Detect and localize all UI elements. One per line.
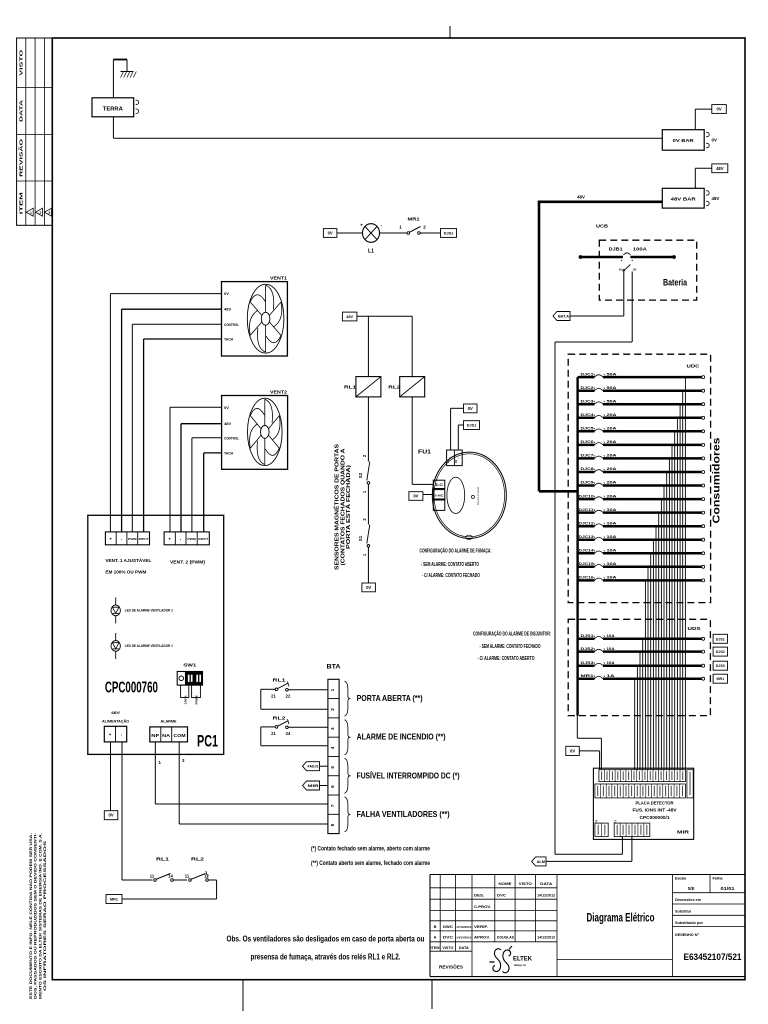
breaker DJS3 [578, 660, 705, 667]
svg-text:2: 2 [423, 225, 426, 230]
svg-text:ITEM: ITEM [19, 191, 24, 214]
svg-text:DJS3: DJS3 [716, 664, 725, 668]
terminal block MIR bottom right [613, 820, 650, 836]
wire PC1 minus down [121, 742, 123, 880]
breaker DJC15 [578, 561, 705, 568]
net tag 0V FU1 [464, 404, 478, 413]
wire VENT1 48V to PC1 [122, 309, 222, 532]
net tag DJS1 FU1 [464, 421, 480, 430]
svg-text:VERIF.: VERIF. [474, 924, 488, 929]
svg-text:100%: 100% [183, 695, 187, 705]
label PLACA DETECTOR [633, 800, 678, 820]
svg-text:0V: 0V [712, 138, 717, 143]
wire VENT2 48V to PC1 [181, 424, 222, 532]
svg-text:DJC12: DJC12 [579, 520, 595, 525]
revision triangle 2 [36, 208, 43, 216]
svg-text:FALHA VENTILADORES (**): FALHA VENTILADORES (**) [357, 810, 450, 819]
svg-text:presensa de fumaça, através do: presensa de fumaça, através dos relés RL… [251, 953, 401, 962]
svg-text:20A: 20A [607, 412, 617, 417]
wire VENT1 CONTROL to PC1 [132, 324, 221, 532]
busbar UDC 48V [576, 377, 578, 715]
breaker DJC1 [578, 371, 705, 378]
svg-text:LED DE ALARME VENTILADOR 2: LED DE ALARME VENTILADOR 2 [125, 609, 173, 613]
breaker DJC14 [578, 548, 705, 555]
wire DJC9 output [663, 486, 665, 771]
svg-text:0V BAR: 0V BAR [673, 138, 695, 144]
svg-text:DJC15: DJC15 [579, 561, 595, 566]
svg-text:DJC10: DJC10 [579, 493, 595, 498]
svg-text:20A: 20A [607, 439, 617, 444]
revision strip table [17, 38, 53, 225]
relay coil RL2 [388, 377, 424, 397]
svg-text:0V: 0V [108, 813, 113, 818]
svg-text:DATA: DATA [540, 881, 552, 886]
wire DJC4 output [676, 418, 678, 770]
svg-text:RL2: RL2 [191, 857, 204, 863]
wire DJC5 output [674, 431, 676, 770]
svg-text:ALARME DE INCENDIO (**): ALARME DE INCENDIO (**) [357, 733, 446, 742]
wire 0V tag to lamp [337, 232, 363, 234]
wire DJC1 output [684, 377, 686, 770]
wire battery negative to MIR [555, 272, 632, 855]
svg-text:DATA: DATA [459, 946, 470, 950]
svg-text:1: 1 [399, 225, 402, 230]
svg-text:17/10/2012: 17/10/2012 [456, 925, 471, 929]
svg-text:RL2: RL2 [273, 716, 287, 721]
wire 0V BAR to 0V tag [695, 109, 712, 130]
svg-text:FADJ1: FADJ1 [308, 765, 319, 769]
svg-text:+: + [168, 537, 171, 542]
net tag MR1 [713, 674, 727, 683]
wire VENT2 0V to PC1 [170, 407, 222, 532]
svg-text:DJC4: DJC4 [581, 412, 595, 417]
breaker DJC2 [578, 385, 705, 392]
svg-text:SENSORES MAGNÉTICOS DE PORTAS: SENSORES MAGNÉTICOS DE PORTAS [333, 444, 341, 570]
svg-text:ALM: ALM [537, 860, 545, 864]
breaker DJC9 [578, 480, 705, 487]
wire DJC15 output [647, 567, 649, 770]
svg-text:DVC: DVC [497, 894, 506, 898]
wire FU1 K1 to 0V tag [451, 408, 464, 450]
net tag 0V lamp [323, 229, 337, 238]
note Obs ventiladores [227, 935, 425, 962]
svg-text:NF: NF [151, 733, 160, 738]
net tag MR1 bottom left [106, 895, 122, 904]
wire TERRA to 0V BAR [113, 117, 662, 138]
svg-text:Dimensões em: Dimensões em [675, 898, 702, 902]
svg-text:48V: 48V [346, 315, 353, 319]
svg-text:20A: 20A [607, 426, 617, 431]
relay contact RL2 bottom [185, 857, 210, 882]
controller PC1 box [88, 515, 224, 754]
svg-text:FU1: FU1 [418, 450, 431, 456]
svg-text:Obs. Os ventiladores são desli: Obs. Os ventiladores são desligados em c… [227, 935, 425, 944]
svg-text:TERRA: TERRA [103, 106, 123, 112]
sheet ref tag to BTA 6 [303, 781, 328, 790]
net tag DJS1 lamp [441, 229, 457, 238]
terminal strip BTA [327, 664, 342, 834]
svg-text:10A: 10A [607, 575, 617, 580]
svg-text:48V: 48V [577, 195, 585, 200]
terminal 48V ALIMENTACAO on PC1 [102, 711, 129, 742]
svg-text:- C/ ALARME: CONTATO FECHADO: - C/ ALARME: CONTATO FECHADO [422, 573, 480, 579]
wire MR1 output [634, 679, 636, 770]
svg-text:DJC6: DJC6 [581, 439, 595, 444]
svg-text:2: 2 [39, 211, 41, 215]
sheet ref tag ALM [532, 857, 546, 866]
svg-text:0V: 0V [413, 494, 418, 499]
copyright note rotated left margin [29, 833, 47, 999]
svg-text:APROV.: APROV. [474, 935, 490, 940]
svg-text:20A: 20A [607, 453, 617, 458]
svg-text:VISTO: VISTO [519, 881, 532, 886]
wire DJC14 output [650, 553, 652, 770]
title block texts left [431, 881, 556, 970]
svg-text:48V: 48V [111, 711, 121, 715]
brace FALHA VENTILADORES [345, 797, 450, 832]
wire UDS bus to MIR [577, 716, 601, 770]
svg-text:11: 11 [150, 874, 155, 879]
svg-text:10A: 10A [607, 548, 617, 553]
svg-text:MENTO ESCRITO DA ELTEK SISTEMA: MENTO ESCRITO DA ELTEK SISTEMAS DE ENERG… [38, 833, 42, 999]
svg-text:DJC5: DJC5 [581, 426, 595, 431]
svg-text:PWM: PWM [194, 695, 198, 705]
svg-text:·: · [121, 733, 123, 739]
wire DJC13 output [652, 540, 654, 770]
terminal block MIR right [687, 770, 693, 798]
svg-text:DJS1: DJS1 [444, 232, 454, 236]
net tag 0V below PC1 [104, 811, 118, 820]
battery box Bateria [599, 240, 696, 300]
svg-text:(+): (+) [594, 820, 598, 823]
svg-text:3-C: 3-C [435, 483, 444, 487]
svg-text:VENT. 1 AJUSTÁVEL: VENT. 1 AJUSTÁVEL [105, 557, 151, 563]
svg-text:PC1: PC1 [197, 732, 218, 751]
svg-text:21: 21 [271, 694, 276, 699]
svg-text:0V: 0V [328, 231, 333, 236]
svg-text:DJC7: DJC7 [581, 453, 595, 458]
breaker DJC4 [578, 412, 705, 419]
svg-text:PORTA ABERTA (**): PORTA ABERTA (**) [357, 694, 423, 703]
svg-text:DJC14: DJC14 [579, 548, 595, 553]
brace FUSIVEL INTERROMPIDO [345, 758, 460, 793]
lamp L1 [360, 224, 383, 255]
wire PC1 minus to RL1 contact [122, 879, 153, 881]
label VENT.2 PWM [170, 560, 205, 565]
svg-text:0V: 0V [468, 406, 473, 411]
svg-text:Folha: Folha [713, 877, 723, 881]
svg-text:L1: L1 [368, 249, 374, 255]
wire DJC16 output [644, 580, 646, 770]
switch MR1 [399, 217, 426, 235]
svg-text:VISTO: VISTO [19, 48, 24, 75]
revision triangle 1 [26, 208, 33, 216]
svg-text:DWC: DWC [443, 925, 453, 929]
relay coil RL1 [344, 377, 381, 397]
svg-text:11: 11 [185, 874, 190, 879]
terminal TERRA [92, 98, 139, 117]
svg-text:48V: 48V [716, 166, 724, 171]
svg-text:INPUT: INPUT [198, 537, 208, 541]
svg-text:21: 21 [271, 731, 276, 736]
svg-text:always on: always on [514, 963, 526, 967]
terminal block MIR bottom left [594, 820, 608, 837]
logo ELTEK [490, 946, 533, 973]
svg-text:REVISÃO: REVISÃO [19, 138, 24, 177]
door sensor S2 [358, 454, 370, 493]
svg-text:7: 7 [330, 804, 335, 807]
brace ALARME DE INCENDIO [345, 720, 446, 755]
wire DJC12 output [655, 526, 657, 770]
wire 48V BAR to 48V tag [695, 168, 712, 188]
svg-text:CONTROL: CONTROL [224, 322, 239, 327]
LED alarm fan 2 [111, 598, 173, 624]
wire switch MR1 to DJS1 tag [420, 232, 440, 234]
svg-text:10A: 10A [607, 520, 617, 525]
svg-text:DOS, PASSADOS OU REPRODUZIDOS: DOS, PASSADOS OU REPRODUZIDOS SEM O DEVI… [34, 833, 38, 999]
svg-text:DJB1: DJB1 [609, 247, 624, 252]
svg-text:24: 24 [286, 731, 291, 736]
svg-text:DJC13: DJC13 [579, 534, 595, 539]
svg-text:S/E: S/E [688, 886, 695, 891]
svg-text:10A: 10A [607, 660, 615, 665]
sheet alignment tick bottom left [242, 980, 244, 1011]
svg-text:BTA: BTA [327, 664, 342, 671]
sheet ref tag to BTA 5 [303, 762, 328, 771]
svg-text:01/01: 01/01 [721, 886, 736, 891]
svg-text:48V BAR: 48V BAR [671, 196, 697, 202]
svg-text:UDC: UDC [687, 364, 701, 369]
net tag 0V top right [712, 105, 727, 114]
svg-text:DVC: DVC [443, 936, 454, 940]
svg-text:DJS2: DJS2 [581, 646, 595, 651]
svg-text:Bateria: Bateria [663, 278, 687, 288]
svg-text:DJS1: DJS1 [716, 637, 725, 641]
svg-text:TACH: TACH [224, 337, 233, 342]
wire S1 to 0V tag [367, 547, 369, 583]
svg-text:14/12/2012: 14/12/2012 [537, 936, 555, 940]
wire DJC2 output [682, 391, 684, 770]
net tag 0V FU1 left [409, 492, 423, 501]
breaker DJC7 [578, 453, 705, 460]
svg-text:48V: 48V [712, 196, 720, 201]
breaker DJC10 [578, 493, 705, 500]
svg-text:MR1: MR1 [408, 217, 421, 222]
svg-text:VENT2: VENT2 [270, 389, 288, 394]
distribution box UDC [568, 354, 710, 602]
svg-text:Escala: Escala [675, 877, 686, 881]
svg-text:RL1: RL1 [156, 857, 169, 863]
label PC1 [197, 732, 218, 751]
sheet alignment tick top [449, 26, 451, 38]
breaker DJC5 [578, 426, 705, 433]
note alarme de disjuntor [473, 631, 551, 663]
svg-text:50A: 50A [607, 398, 617, 403]
svg-text:0V: 0V [619, 268, 622, 271]
svg-text:3: 3 [48, 211, 50, 215]
svg-text:(**) Contato aberto sem alarme: (**) Contato aberto sem alarme, fechado … [311, 860, 430, 867]
svg-text:S2: S2 [358, 472, 363, 478]
fan VENT2 [222, 389, 288, 469]
label VENT.1 AJUSTAVEL [105, 557, 151, 574]
relay contact RL1 bottom [150, 857, 174, 882]
svg-text:DJS2: DJS2 [716, 650, 725, 654]
svg-text:DJC9: DJC9 [581, 480, 595, 485]
svg-text:ESTE DOCUMENTO E INFO. NELE CO: ESTE DOCUMENTO E INFO. NELE CONTIDA NAO … [29, 833, 33, 999]
terminal block VENT2 on PC1 [164, 532, 209, 545]
svg-text:CONTROL: CONTROL [224, 435, 239, 440]
svg-text:DESENHO N°: DESENHO N° [675, 933, 700, 937]
svg-text:DJC16: DJC16 [579, 575, 595, 580]
svg-text:48V: 48V [224, 421, 231, 426]
svg-text:RL1: RL1 [273, 678, 287, 683]
svg-text:2: 2 [330, 708, 335, 711]
svg-text:CPC000760: CPC000760 [105, 680, 158, 697]
wire 48V tag to relay coils [357, 316, 412, 376]
svg-text:20A: 20A [607, 466, 617, 471]
svg-text:100A: 100A [633, 247, 647, 252]
wire VENT2 CONTROL to PC1 [192, 438, 222, 532]
wire RL2 coil to FU1 [412, 397, 433, 485]
distribution box UDS [568, 619, 710, 715]
svg-text:DETECTOR: DETECTOR [478, 486, 480, 505]
svg-text:14/12/2012: 14/12/2012 [537, 894, 555, 898]
net tag 48V relays [342, 312, 357, 321]
breaker DJC8 [578, 466, 705, 473]
wire DJC10 output [660, 499, 662, 770]
svg-text:20A: 20A [607, 493, 617, 498]
svg-text:BAT.A: BAT.A [558, 314, 569, 318]
breaker MR1 [578, 673, 705, 680]
terminal block FU1 left [433, 480, 445, 510]
svg-text:CN: CN [633, 268, 637, 271]
breaker DJB1 [579, 247, 676, 272]
svg-text:1: 1 [330, 688, 335, 691]
svg-text:- C/ ALARME: CONTATO ABERTO: - C/ ALARME: CONTATO ABERTO [478, 656, 535, 662]
svg-text:EM 100% OU PWM: EM 100% OU PWM [105, 569, 146, 574]
relay contact RL2 to BTA [261, 716, 328, 746]
wire VENT1 TACH to PC1 [144, 339, 222, 532]
net tag 48V top right [712, 164, 728, 173]
svg-text:5: 5 [330, 766, 335, 769]
wire FU1 K2 to DJS1 tag [458, 425, 463, 450]
svg-text:+: + [110, 537, 113, 542]
svg-text:PWM: PWM [187, 537, 196, 541]
svg-text:DATA: DATA [19, 100, 24, 122]
net tag DJS3 [713, 661, 727, 670]
wire PC1 NF to BTA 7 [155, 742, 328, 804]
svg-text:MR1: MR1 [110, 898, 118, 902]
svg-text:Substitui: Substitui [675, 909, 691, 913]
net tag 0V sensors [362, 583, 376, 592]
revision triangle 3 [45, 208, 52, 216]
svg-text:NA: NA [162, 733, 170, 738]
breaker DJC11 [578, 507, 705, 514]
svg-text:OS INFRATORES SERAO PROCESSADO: OS INFRATORES SERAO PROCESSADOS [43, 839, 47, 991]
svg-text:50A: 50A [607, 371, 617, 376]
svg-text:DOUGLAS: DOUGLAS [497, 936, 515, 940]
breaker DJS1 [578, 633, 705, 640]
svg-text:48V: 48V [224, 307, 231, 312]
wire battery positive to BATA tag [570, 271, 624, 316]
svg-text:(-): (-) [613, 820, 617, 823]
svg-text:FUSÍVEL INTERROMPIDO DC (*): FUSÍVEL INTERROMPIDO DC (*) [357, 771, 460, 781]
svg-text:TACH: TACH [224, 450, 233, 455]
board MIR PLACA DETECTOR [593, 768, 693, 839]
svg-text:CONFIGURAÇÃO DO ALARME DE FUMA: CONFIGURAÇÃO DO ALARME DE FUMAÇA: [420, 547, 492, 554]
svg-text:VENT. 2 (PWM): VENT. 2 (PWM) [170, 560, 205, 565]
sheet ref tag BATA [553, 312, 570, 321]
svg-text:10A: 10A [607, 534, 617, 539]
svg-text:5-NC: 5-NC [435, 493, 445, 497]
label door sensors rotated [333, 444, 353, 570]
svg-text:0V: 0V [224, 405, 229, 410]
svg-text:PORTA ESTÁ FECHADA): PORTA ESTÁ FECHADA) [345, 465, 352, 549]
breaker DJC12 [578, 520, 705, 527]
svg-text:REVISÕES: REVISÕES [439, 965, 463, 970]
wire PC1 COM to BTA 8 [179, 742, 328, 824]
svg-text:10A: 10A [607, 507, 617, 512]
ground symbol [113, 60, 136, 98]
busbar 48V BAR [662, 188, 719, 208]
terminal row 1 on MIR [599, 770, 686, 782]
wire PC1 plus to 0V tag [110, 742, 112, 811]
net tag DJS1 [713, 634, 727, 643]
svg-text:PLACA DETECTOR: PLACA DETECTOR [636, 800, 675, 805]
label UCB [596, 224, 608, 229]
wire DJS3 output [636, 666, 638, 770]
svg-text:Diagrama Elétrico: Diagrama Elétrico [587, 913, 655, 925]
svg-text:1A: 1A [607, 673, 615, 678]
svg-text:SW1: SW1 [183, 663, 196, 669]
wire DJC11 output [658, 513, 660, 770]
svg-text:DJC11: DJC11 [579, 507, 595, 512]
terminal block FU1 top [447, 450, 463, 466]
breaker DJC3 [578, 398, 705, 405]
wire DJC3 output [679, 404, 681, 770]
svg-text:PWM: PWM [128, 537, 137, 541]
terminal row 2 on MIR [595, 784, 686, 798]
svg-text:A: A [434, 935, 437, 940]
svg-text:FUS. IONS INT -48V: FUS. IONS INT -48V [633, 808, 678, 813]
svg-text:-: - [456, 457, 460, 458]
svg-text:ALIMENTAÇÃO: ALIMENTAÇÃO [102, 719, 129, 724]
svg-text:UCB: UCB [596, 224, 608, 229]
svg-text:+: + [109, 733, 112, 738]
wire DJC7 output [668, 458, 670, 770]
svg-text:14: 14 [168, 874, 173, 879]
breaker DJC6 [578, 439, 705, 446]
svg-text:4: 4 [330, 746, 335, 749]
smoke detector FU1 [418, 450, 506, 540]
wire 48V feeder thick [539, 195, 662, 492]
svg-text:MIR: MIR [677, 830, 690, 836]
svg-text:MIR: MIR [308, 784, 320, 788]
svg-text:- SEM ALARME: CONTATO FECHADO: - SEM ALARME: CONTATO FECHADO [480, 644, 541, 650]
svg-text:DJS1: DJS1 [581, 633, 595, 638]
wire VENT2 TACH to PC1 [204, 453, 222, 532]
wire DJS1 output [642, 639, 644, 770]
svg-text:+: + [449, 457, 453, 459]
svg-text:50A: 50A [607, 385, 617, 390]
svg-text:UDS: UDS [688, 626, 701, 631]
svg-text:ITEM: ITEM [431, 946, 440, 950]
svg-text:DJC3: DJC3 [581, 398, 595, 403]
svg-text:MR1: MR1 [717, 677, 725, 681]
svg-text:C.PROV.: C.PROV. [474, 904, 491, 909]
svg-text:0V: 0V [366, 585, 371, 590]
door sensor S1 [358, 518, 370, 557]
